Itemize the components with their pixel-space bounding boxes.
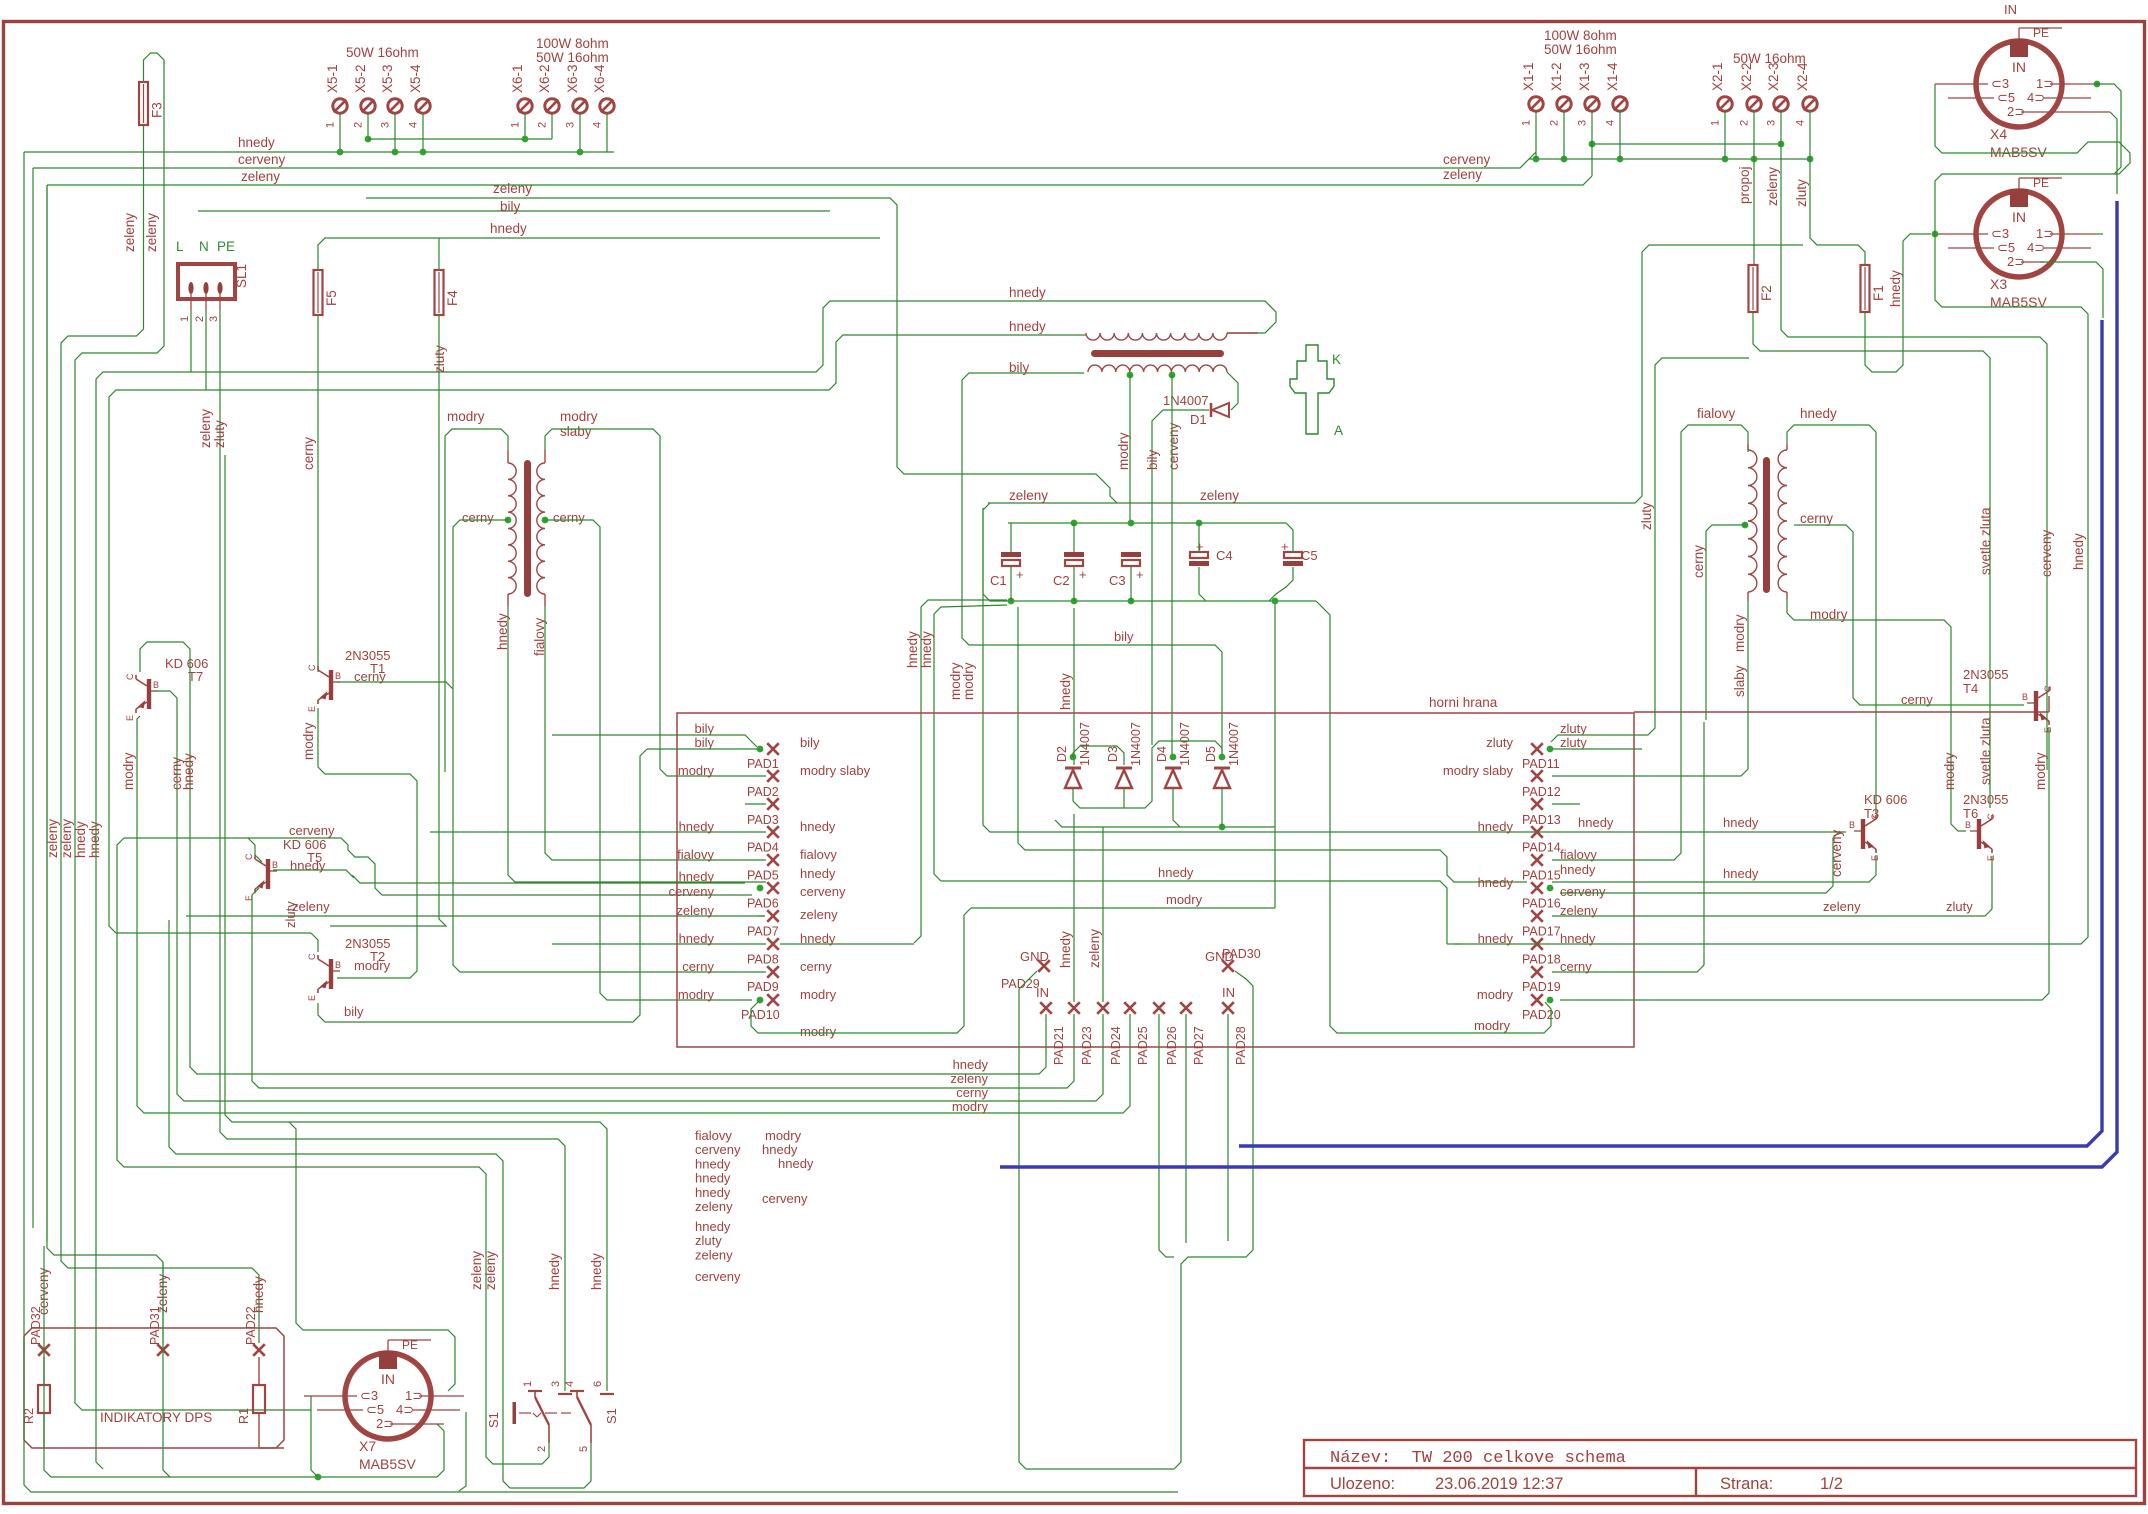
svg-text:hnedy: hnedy <box>87 821 102 858</box>
svg-text:cerveny: cerveny <box>762 1191 808 1206</box>
svg-text:fialovy: fialovy <box>1697 406 1736 421</box>
svg-text:hnedy: hnedy <box>800 866 836 881</box>
svg-text:B: B <box>1965 820 1971 830</box>
svg-text:PAD1: PAD1 <box>747 757 779 771</box>
svg-text:PAD4: PAD4 <box>747 841 779 855</box>
svg-text:bily: bily <box>694 721 714 736</box>
svg-text:MAB5SV: MAB5SV <box>359 1456 416 1472</box>
svg-text:K: K <box>1332 352 1341 367</box>
svg-text:C: C <box>1986 813 1996 820</box>
svg-text:modry: modry <box>952 1099 989 1114</box>
svg-text:cerny: cerny <box>169 757 184 790</box>
svg-text:5: 5 <box>578 1446 590 1452</box>
svg-text:zeleny: zeleny <box>1200 488 1239 503</box>
svg-text:PAD26: PAD26 <box>1165 1026 1179 1065</box>
svg-text:C2: C2 <box>1053 573 1070 588</box>
svg-text:modry: modry <box>354 958 391 973</box>
svg-text:zluty: zluty <box>1486 735 1513 750</box>
svg-text:A: A <box>1334 423 1343 438</box>
svg-text:3: 3 <box>565 122 577 128</box>
svg-text:C: C <box>244 853 254 860</box>
svg-text:cerny: cerny <box>800 959 832 974</box>
svg-text:1: 1 <box>522 1381 534 1387</box>
svg-text:cerveny: cerveny <box>668 884 714 899</box>
svg-text:hnedy: hnedy <box>547 1253 562 1290</box>
svg-text:X6-3: X6-3 <box>565 64 580 93</box>
svg-text:modry slaby: modry slaby <box>800 763 871 778</box>
svg-text:cerny: cerny <box>301 437 316 470</box>
svg-text:1/2: 1/2 <box>1820 1475 1843 1493</box>
svg-text:modry: modry <box>1116 432 1131 470</box>
svg-text:zeleny: zeleny <box>292 899 330 914</box>
svg-text:1N4007: 1N4007 <box>1163 393 1209 408</box>
svg-text:2N3055: 2N3055 <box>1963 667 2009 682</box>
svg-text:Název: TW 200 celkove schema: Název: TW 200 celkove schema <box>1330 1449 1626 1468</box>
svg-text:zeleny: zeleny <box>1823 899 1861 914</box>
svg-text:3: 3 <box>208 316 220 322</box>
svg-text:zeleny: zeleny <box>1443 167 1482 182</box>
svg-text:PAD8: PAD8 <box>747 952 779 966</box>
svg-text:KD 606: KD 606 <box>1864 792 1907 807</box>
svg-text:modry: modry <box>800 987 837 1002</box>
svg-text:IN: IN <box>1036 985 1049 1000</box>
svg-text:modry: modry <box>447 409 485 424</box>
svg-text:modry: modry <box>301 722 316 760</box>
svg-text:100W 8ohm: 100W 8ohm <box>1544 28 1617 43</box>
svg-text:zluty: zluty <box>1560 735 1587 750</box>
svg-text:+: + <box>1281 539 1289 554</box>
svg-text:hnedy: hnedy <box>695 1171 731 1186</box>
svg-text:1: 1 <box>1521 120 1533 126</box>
svg-text:S1: S1 <box>604 1408 619 1424</box>
svg-text:modry: modry <box>121 752 136 790</box>
svg-text:6: 6 <box>592 1381 604 1387</box>
svg-text:zeleny: zeleny <box>122 213 137 252</box>
svg-text:C3: C3 <box>1109 573 1126 588</box>
svg-text:hnedy: hnedy <box>2071 533 2086 570</box>
svg-text:cerveny: cerveny <box>289 823 335 838</box>
svg-text:hnedy: hnedy <box>953 1057 989 1072</box>
svg-text:⊂3: ⊂3 <box>360 1388 378 1403</box>
svg-text:C: C <box>2043 685 2053 692</box>
svg-text:modry: modry <box>961 662 976 700</box>
svg-text:modry: modry <box>1477 987 1514 1002</box>
svg-text:zeleny: zeleny <box>695 1199 733 1214</box>
svg-text:hnedy: hnedy <box>762 1142 798 1157</box>
svg-text:PAD16: PAD16 <box>1522 897 1561 911</box>
svg-text:slaby: slaby <box>560 424 592 439</box>
svg-text:3: 3 <box>1766 120 1778 126</box>
svg-text:modry: modry <box>800 1024 837 1039</box>
svg-text:L: L <box>176 239 184 254</box>
svg-text:hnedy: hnedy <box>695 1185 731 1200</box>
svg-text:23.06.2019 12:37: 23.06.2019 12:37 <box>1435 1475 1563 1493</box>
svg-text:PAD24: PAD24 <box>1109 1026 1123 1065</box>
svg-text:hnedy: hnedy <box>1560 862 1596 877</box>
svg-text:D1: D1 <box>1190 412 1207 427</box>
svg-text:IN: IN <box>381 1371 395 1387</box>
svg-text:X5-4: X5-4 <box>408 64 423 93</box>
svg-text:PE: PE <box>2033 176 2049 190</box>
svg-text:X6-4: X6-4 <box>592 64 607 93</box>
svg-text:50W 16ohm: 50W 16ohm <box>1733 51 1806 66</box>
svg-text:PAD25: PAD25 <box>1136 1026 1150 1065</box>
svg-text:INDIKATORY DPS: INDIKATORY DPS <box>100 1410 212 1425</box>
svg-text:hnedy: hnedy <box>1478 819 1514 834</box>
svg-text:zluty: zluty <box>1946 899 1973 914</box>
svg-text:modry: modry <box>1732 614 1747 652</box>
svg-text:2: 2 <box>1549 120 1561 126</box>
svg-text:cerveny: cerveny <box>695 1142 741 1157</box>
svg-text:D2: D2 <box>1055 746 1069 762</box>
svg-text:PAD5: PAD5 <box>747 869 779 883</box>
svg-text:T3: T3 <box>1864 806 1879 821</box>
svg-text:4⊃: 4⊃ <box>2027 240 2045 255</box>
svg-text:PAD13: PAD13 <box>1522 813 1561 827</box>
svg-text:B: B <box>2022 692 2028 702</box>
svg-text:modry: modry <box>1942 752 1957 790</box>
svg-text:hnedy: hnedy <box>1009 285 1046 300</box>
svg-text:2: 2 <box>1739 120 1751 126</box>
svg-text:modry: modry <box>560 409 598 424</box>
svg-text:hnedy: hnedy <box>73 821 88 858</box>
svg-text:1N4007: 1N4007 <box>1227 722 1241 766</box>
svg-text:E: E <box>1870 855 1880 861</box>
svg-text:zeleny: zeleny <box>198 409 213 448</box>
svg-text:+: + <box>1196 539 1204 554</box>
svg-text:PAD2: PAD2 <box>747 785 779 799</box>
svg-text:hnedy: hnedy <box>1723 866 1759 881</box>
svg-text:hnedy: hnedy <box>1800 406 1837 421</box>
svg-text:zeleny: zeleny <box>483 1251 498 1290</box>
svg-text:C1: C1 <box>990 573 1007 588</box>
svg-text:C5: C5 <box>1301 548 1318 563</box>
svg-text:hnedy: hnedy <box>589 1253 604 1290</box>
svg-text:PAD19: PAD19 <box>1522 980 1561 994</box>
svg-text:hnedy: hnedy <box>290 858 326 873</box>
svg-text:zluty: zluty <box>1639 502 1654 530</box>
svg-text:1N4007: 1N4007 <box>1129 722 1143 766</box>
svg-text:propoj: propoj <box>1737 166 1752 204</box>
svg-text:50W 16ohm: 50W 16ohm <box>536 50 609 65</box>
svg-text:X3: X3 <box>1990 276 2007 292</box>
svg-text:B: B <box>1849 820 1855 830</box>
svg-text:F3: F3 <box>150 102 165 118</box>
svg-text:PAD9: PAD9 <box>747 980 779 994</box>
svg-text:X2-3: X2-3 <box>1766 62 1781 91</box>
svg-text:modry: modry <box>1474 1018 1511 1033</box>
svg-text:3: 3 <box>550 1381 562 1387</box>
svg-text:E: E <box>1986 855 1996 861</box>
svg-text:bily: bily <box>500 199 521 214</box>
svg-text:PAD18: PAD18 <box>1522 952 1561 966</box>
svg-text:cerny: cerny <box>956 1085 988 1100</box>
svg-text:modry: modry <box>765 1128 802 1143</box>
svg-text:PAD7: PAD7 <box>747 924 779 938</box>
svg-text:cerny: cerny <box>1800 511 1833 526</box>
svg-text:⊂5: ⊂5 <box>1997 240 2015 255</box>
svg-text:hnedy: hnedy <box>1158 865 1194 880</box>
svg-text:1N4007: 1N4007 <box>1078 722 1092 766</box>
svg-text:X1-3: X1-3 <box>1577 62 1592 91</box>
svg-text:C4: C4 <box>1216 548 1233 563</box>
svg-text:hnedy: hnedy <box>905 631 920 668</box>
svg-text:PAD12: PAD12 <box>1522 785 1561 799</box>
svg-text:4: 4 <box>1795 120 1807 126</box>
svg-text:X1-2: X1-2 <box>1549 62 1564 91</box>
svg-text:F4: F4 <box>445 290 460 306</box>
svg-text:C: C <box>307 953 317 960</box>
svg-text:modry: modry <box>678 763 715 778</box>
svg-text:fialovy: fialovy <box>695 1128 732 1143</box>
svg-text:E: E <box>307 706 317 712</box>
svg-text:4⊃: 4⊃ <box>2027 90 2045 105</box>
svg-text:3: 3 <box>1577 120 1589 126</box>
svg-text:X4: X4 <box>1990 126 2007 142</box>
svg-text:GND: GND <box>1020 949 1049 964</box>
svg-text:50W 16ohm: 50W 16ohm <box>346 45 419 60</box>
svg-text:zeleny: zeleny <box>59 819 74 858</box>
svg-text:hnedy: hnedy <box>1723 815 1759 830</box>
svg-text:zeleny: zeleny <box>695 1247 733 1262</box>
svg-text:2: 2 <box>194 316 206 322</box>
svg-text:fialovy: fialovy <box>800 847 837 862</box>
svg-text:zeleny: zeleny <box>800 907 838 922</box>
svg-text:PAD21: PAD21 <box>1052 1026 1066 1065</box>
svg-text:cerveny: cerveny <box>1166 422 1181 470</box>
svg-text:MAB5SV: MAB5SV <box>1990 144 2047 160</box>
svg-text:PAD15: PAD15 <box>1522 869 1561 883</box>
svg-text:X2-4: X2-4 <box>1795 62 1810 91</box>
svg-text:cerny: cerny <box>682 959 714 974</box>
svg-text:4: 4 <box>564 1381 576 1387</box>
svg-text:modry: modry <box>1166 892 1203 907</box>
svg-text:B: B <box>153 680 159 690</box>
svg-text:X1-1: X1-1 <box>1521 62 1536 91</box>
svg-text:svetle zluta: svetle zluta <box>1978 507 1993 575</box>
svg-text:PAD17: PAD17 <box>1522 924 1561 938</box>
svg-text:PE: PE <box>217 239 235 254</box>
svg-text:X5-2: X5-2 <box>353 64 368 93</box>
svg-text:zeleny: zeleny <box>1087 929 1102 968</box>
svg-text:⊂3: ⊂3 <box>1991 226 2009 241</box>
svg-text:IN: IN <box>2012 209 2026 225</box>
svg-text:PAD28: PAD28 <box>1234 1026 1248 1065</box>
svg-text:⊂5: ⊂5 <box>366 1402 384 1417</box>
svg-text:hnedy: hnedy <box>1578 815 1614 830</box>
svg-text:C: C <box>307 664 317 671</box>
svg-text:bily: bily <box>800 735 820 750</box>
svg-text:2N3055: 2N3055 <box>1963 792 2009 807</box>
svg-text:zluty: zluty <box>1560 721 1587 736</box>
svg-text:SL1: SL1 <box>234 264 249 288</box>
svg-text:1: 1 <box>1710 120 1722 126</box>
svg-text:X2-1: X2-1 <box>1710 62 1725 91</box>
svg-text:PAD10: PAD10 <box>741 1008 780 1022</box>
svg-text:zluty: zluty <box>212 420 227 448</box>
svg-text:4⊃: 4⊃ <box>396 1402 414 1417</box>
svg-text:D4: D4 <box>1155 746 1169 762</box>
svg-text:cerny: cerny <box>553 510 585 525</box>
svg-text:modry: modry <box>678 987 715 1002</box>
svg-text:E: E <box>2043 727 2053 733</box>
svg-text:PAD30: PAD30 <box>1222 947 1261 961</box>
svg-text:PAD23: PAD23 <box>1080 1026 1094 1065</box>
svg-text:zeleny: zeleny <box>469 1251 484 1290</box>
svg-text:hnedy: hnedy <box>238 135 275 150</box>
svg-text:⊂5: ⊂5 <box>1997 90 2015 105</box>
svg-text:1: 1 <box>325 122 337 128</box>
svg-text:cerveny: cerveny <box>800 884 846 899</box>
svg-text:50W 16ohm: 50W 16ohm <box>1544 42 1617 57</box>
svg-text:X6-1: X6-1 <box>510 64 525 93</box>
svg-text:100W 8ohm: 100W 8ohm <box>536 36 609 51</box>
svg-text:PAD6: PAD6 <box>747 897 779 911</box>
svg-text:zeleny: zeleny <box>144 213 159 252</box>
svg-text:hnedy: hnedy <box>1478 875 1514 890</box>
svg-text:zluty: zluty <box>695 1233 722 1248</box>
svg-text:hnedy: hnedy <box>251 1276 266 1313</box>
svg-text:hnedy: hnedy <box>490 221 527 236</box>
svg-text:cerveny: cerveny <box>2039 529 2054 577</box>
svg-text:cerny: cerny <box>462 510 494 525</box>
svg-text:T6: T6 <box>1963 806 1978 821</box>
svg-text:1: 1 <box>179 316 191 322</box>
svg-text:hnedy: hnedy <box>919 631 934 668</box>
svg-text:modry: modry <box>2033 752 2048 790</box>
svg-text:N: N <box>199 239 209 254</box>
svg-text:X1-4: X1-4 <box>1605 62 1620 91</box>
svg-text:bily: bily <box>1145 449 1160 470</box>
svg-text:+: + <box>1016 567 1024 582</box>
svg-text:cerveny: cerveny <box>238 152 286 167</box>
svg-text:X5-1: X5-1 <box>325 64 340 93</box>
svg-text:+: + <box>1079 567 1087 582</box>
svg-text:hnedy: hnedy <box>695 1219 731 1234</box>
svg-text:IN: IN <box>2004 2 2017 17</box>
svg-text:hnedy: hnedy <box>800 819 836 834</box>
svg-text:zeleny: zeleny <box>676 903 714 918</box>
svg-text:bily: bily <box>344 1004 364 1019</box>
svg-text:PE: PE <box>2033 26 2049 40</box>
svg-text:zeleny: zeleny <box>241 169 280 184</box>
svg-text:Strana:: Strana: <box>1720 1475 1773 1493</box>
svg-text:hnedy: hnedy <box>778 1156 814 1171</box>
svg-text:R1: R1 <box>237 1408 251 1424</box>
svg-text:B: B <box>272 860 278 870</box>
svg-text:cerny: cerny <box>1691 545 1706 578</box>
svg-text:X2-2: X2-2 <box>1739 62 1754 91</box>
svg-text:slaby: slaby <box>1732 665 1747 697</box>
svg-text:B: B <box>335 671 341 681</box>
svg-text:bily: bily <box>1114 629 1134 644</box>
svg-text:T4: T4 <box>1963 681 1978 696</box>
svg-text:horni hrana: horni hrana <box>1429 695 1498 710</box>
svg-text:S1: S1 <box>486 1412 501 1428</box>
svg-text:⊂3: ⊂3 <box>1991 76 2009 91</box>
svg-text:cerveny: cerveny <box>1829 829 1844 877</box>
svg-text:2: 2 <box>353 122 365 128</box>
svg-text:zluty: zluty <box>1794 179 1809 207</box>
svg-text:Ulozeno:: Ulozeno: <box>1330 1475 1395 1493</box>
svg-text:1: 1 <box>510 122 522 128</box>
svg-text:PAD11: PAD11 <box>1522 757 1560 771</box>
svg-text:hnedy: hnedy <box>695 1156 731 1171</box>
svg-text:PAD27: PAD27 <box>1192 1026 1206 1065</box>
svg-text:E: E <box>125 715 135 721</box>
svg-text:F5: F5 <box>324 290 339 306</box>
svg-text:F1: F1 <box>1871 285 1886 301</box>
svg-text:B: B <box>335 960 341 970</box>
svg-text:cerveny: cerveny <box>695 1269 741 1284</box>
svg-text:+: + <box>1136 567 1144 582</box>
svg-text:fialovy: fialovy <box>677 847 714 862</box>
svg-text:PAD29: PAD29 <box>1001 977 1040 991</box>
svg-text:PAD3: PAD3 <box>747 813 779 827</box>
svg-text:1N4007: 1N4007 <box>1178 722 1192 766</box>
svg-text:IN: IN <box>1222 985 1235 1000</box>
svg-text:bily: bily <box>694 735 714 750</box>
svg-text:4: 4 <box>1605 120 1617 126</box>
svg-text:hnedy: hnedy <box>1009 319 1046 334</box>
svg-text:zluty: zluty <box>432 345 447 373</box>
svg-text:hnedy: hnedy <box>679 869 715 884</box>
svg-text:D5: D5 <box>1204 746 1218 762</box>
svg-text:zeleny: zeleny <box>1765 167 1780 206</box>
svg-text:4: 4 <box>408 122 420 128</box>
svg-text:C: C <box>125 673 135 680</box>
svg-text:zeleny: zeleny <box>493 181 532 196</box>
svg-text:svetle zluta: svetle zluta <box>1978 717 1993 785</box>
svg-text:IN: IN <box>2012 59 2026 75</box>
svg-text:hnedy: hnedy <box>1888 270 1903 307</box>
svg-text:2: 2 <box>537 122 549 128</box>
svg-text:cerveny: cerveny <box>1560 884 1606 899</box>
svg-text:2: 2 <box>536 1446 548 1452</box>
svg-text:zeleny: zeleny <box>950 1071 988 1086</box>
svg-text:zeleny: zeleny <box>1009 488 1048 503</box>
svg-text:PAD20: PAD20 <box>1522 1008 1561 1022</box>
svg-text:X7: X7 <box>359 1438 376 1454</box>
svg-text:PE: PE <box>402 1338 418 1352</box>
svg-text:hnedy: hnedy <box>1058 931 1073 968</box>
svg-text:3: 3 <box>380 122 392 128</box>
svg-text:F2: F2 <box>1759 285 1774 301</box>
svg-text:hnedy: hnedy <box>1058 673 1073 710</box>
svg-text:PAD14: PAD14 <box>1522 841 1561 855</box>
svg-text:cerveny: cerveny <box>1443 152 1491 167</box>
svg-text:E: E <box>307 995 317 1001</box>
svg-text:D3: D3 <box>1106 746 1120 762</box>
svg-text:4: 4 <box>592 122 604 128</box>
svg-text:X5-3: X5-3 <box>380 64 395 93</box>
svg-text:modry slaby: modry slaby <box>1443 763 1514 778</box>
svg-text:X6-2: X6-2 <box>537 64 552 93</box>
